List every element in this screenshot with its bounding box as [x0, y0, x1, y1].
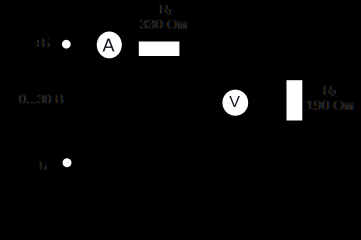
svg-text:+Б: +Б [34, 36, 50, 51]
resistor R2 (vertical) [287, 80, 303, 120]
ammeter A1 [97, 31, 122, 58]
terminal node -Б (bottom left) [63, 158, 72, 167]
label -Б [39, 159, 47, 173]
svg-text:A: A [103, 36, 115, 56]
wire: ammeter to resistor R1 [121, 44, 139, 46]
wire: resistor R1 to top-right corner [179, 48, 294, 50]
svg-text:330 Ом: 330 Ом [140, 16, 188, 32]
value 190 Ом [306, 97, 354, 113]
svg-text:V: V [229, 94, 240, 111]
wire: bottom rail to -terminal [71, 162, 294, 164]
node junction at voltmeter bottom [233, 161, 237, 165]
svg-text:0...30 В: 0...30 В [19, 92, 64, 107]
wire: resistor R2 down to bottom rail [293, 120, 295, 163]
node junction at voltmeter top [233, 47, 237, 51]
svg-text:190 Ом: 190 Ом [306, 97, 354, 113]
label R2 [323, 83, 336, 99]
label R1 [159, 2, 172, 18]
resistor R1 (horizontal) [139, 42, 180, 57]
wire: top-right corner down to resistor R2 [293, 49, 295, 80]
terminal node +Б (top left) [62, 40, 71, 49]
svg-text:Б: Б [39, 159, 47, 173]
wire: voltmeter top branch [234, 49, 236, 90]
label 0...30 В (supply range) [19, 92, 64, 107]
value 330 Ом [140, 16, 188, 32]
wire: voltmeter bottom branch [234, 115, 236, 163]
wire: +terminal to ammeter [70, 44, 97, 46]
voltmeter V1 [222, 90, 248, 116]
label +Б [34, 36, 50, 51]
